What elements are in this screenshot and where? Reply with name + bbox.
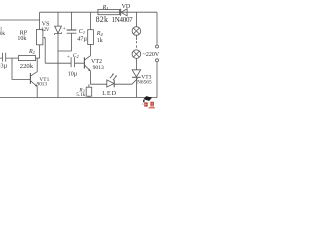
wire RP bottom lead (39, 45, 41, 58)
wire zener/C1 ground link (58, 33, 72, 51)
svg-text:+: + (67, 55, 70, 61)
svg-text:10k: 10k (0, 31, 5, 37)
svg-text:220k: 220k (20, 63, 34, 70)
svg-text:R2: R2 (28, 49, 36, 55)
capacitor C3 input 3u (0, 53, 12, 62)
svg-text:3µ: 3µ (0, 63, 7, 70)
resistor R2 body (18, 56, 35, 61)
wire R2 left lead (12, 57, 18, 59)
wire LED left (90, 83, 106, 85)
LED emission arrows (110, 74, 117, 80)
svg-text:10µ: 10µ (68, 71, 78, 77)
wire R3 leads (88, 84, 90, 97)
svg-text:12V: 12V (41, 27, 50, 33)
potentiometer RP body (36, 30, 43, 45)
wire bottom rail (0, 97, 157, 99)
svg-text:LED: LED (102, 91, 117, 97)
svg-text:47µ: 47µ (77, 35, 87, 42)
svg-text:R4: R4 (96, 31, 104, 37)
resistor R4 body (88, 30, 94, 45)
svg-text:9013: 9013 (37, 82, 48, 88)
svg-text:1k: 1k (97, 38, 103, 44)
wire SCR gate (132, 78, 138, 84)
wire lamp feed (135, 12, 137, 26)
svg-text:N6565: N6565 (137, 80, 152, 86)
wire rail jog / RP top lead (39, 12, 41, 29)
svg-text:9013: 9013 (93, 65, 104, 71)
wire right drop to AC terminal 1 (156, 12, 158, 45)
wire between lamps (135, 35, 137, 40)
LED (107, 80, 114, 87)
svg-text:C2: C2 (73, 53, 79, 59)
lamp EL1 (132, 27, 141, 36)
resistor R1 body (98, 9, 120, 14)
svg-text:10k: 10k (17, 36, 26, 42)
wire R4 top lead (90, 12, 92, 30)
RP wiper arrow (44, 38, 45, 63)
wire top rail right (40, 11, 157, 13)
zener VS 12V (57, 12, 59, 26)
node AC terminal 1 (156, 45, 159, 48)
wire AC terminal 2 down (156, 62, 158, 98)
diode VD 1N4007 (120, 9, 122, 16)
lamp EL2 (132, 50, 141, 59)
node AC terminal 2 (156, 59, 159, 62)
wire dashed lamp ellipsis (135, 41, 137, 49)
capacitor C2 10u (45, 57, 84, 67)
watermark logo black (143, 96, 152, 101)
svg-text:R1: R1 (102, 5, 109, 11)
svg-text:+: + (63, 26, 66, 32)
wire top rail left (0, 19, 40, 21)
watermark red seal 1 (144, 102, 147, 106)
wire VT1 base L (12, 58, 30, 79)
thyristor VT3 2N6565 (132, 70, 141, 77)
transistor VT2 9013 (83, 57, 85, 68)
watermark red seal 2 (150, 102, 154, 107)
capacitor C1 47u (71, 12, 73, 30)
wire R2 right lead (36, 57, 40, 59)
svg-text:5.1k: 5.1k (76, 92, 85, 98)
svg-text:1N4007: 1N4007 (112, 16, 134, 24)
svg-text:82k: 82k (96, 15, 109, 24)
wire lamp2 to SCR anode (135, 58, 137, 69)
resistor R3 body (86, 87, 92, 96)
svg-text:C1: C1 (79, 29, 85, 35)
svg-text:VD: VD (122, 4, 131, 10)
transistor VT1 9013 (29, 73, 31, 84)
svg-text:~220V: ~220V (143, 52, 160, 58)
watermark red url text (149, 107, 155, 109)
